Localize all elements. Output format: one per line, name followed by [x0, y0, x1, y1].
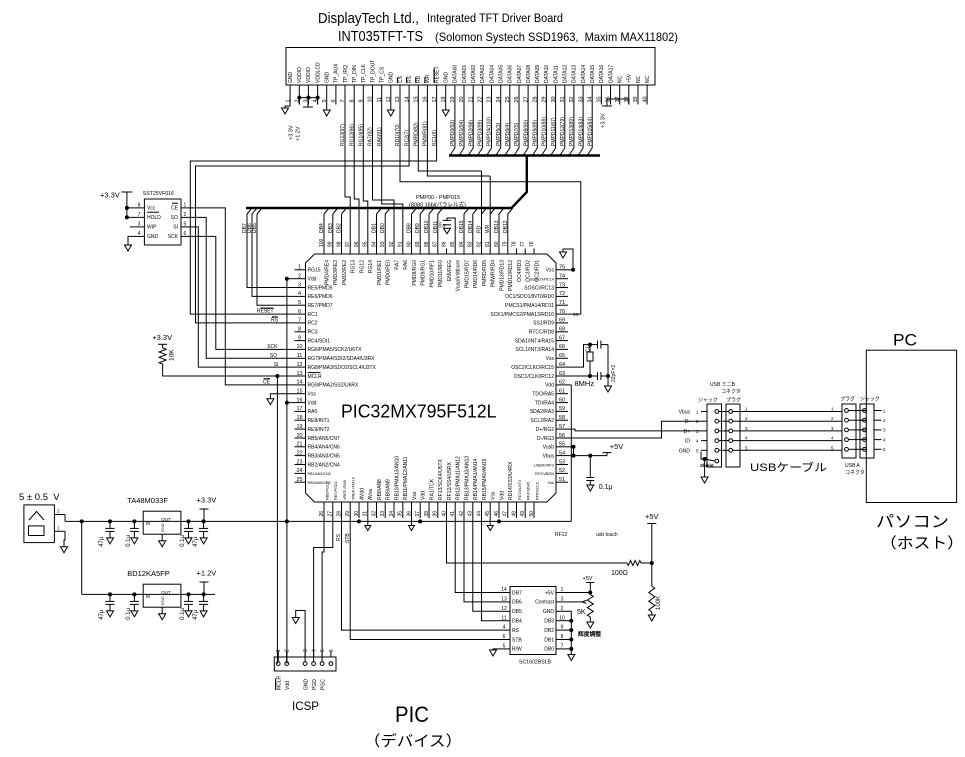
svg-text:RC4/SDI1: RC4/SDI1 [308, 338, 331, 344]
svg-text:1: 1 [561, 587, 564, 593]
svg-text:SCK: SCK [267, 344, 278, 350]
svg-text:CL: CL [586, 345, 592, 352]
svg-text:2: 2 [57, 509, 60, 514]
svg-text:DATA06: DATA06 [508, 65, 514, 83]
svg-text:(8080 16bitパラレル式): (8080 16bitパラレル式) [409, 201, 466, 209]
svg-text:21: 21 [296, 442, 302, 448]
svg-text:2: 2 [285, 649, 291, 652]
svg-text:39: 39 [433, 511, 439, 517]
svg-text:PMD11/RF0: PMD11/RF0 [438, 260, 444, 287]
svg-text:DB5: DB5 [252, 223, 258, 233]
svg-text:D+/RG2: D+/RG2 [536, 427, 554, 433]
svg-text:8: 8 [561, 634, 564, 640]
svg-text:SST25VF016: SST25VF016 [143, 191, 174, 197]
svg-text:（デバイス）: （デバイス） [364, 732, 462, 750]
svg-text:ジャック: ジャック [698, 398, 718, 404]
svg-text:Vbus: Vbus [679, 410, 691, 416]
svg-text:75: 75 [559, 265, 565, 271]
svg-text:10: 10 [296, 344, 302, 350]
svg-text:RC2: RC2 [308, 321, 318, 327]
svg-text:19: 19 [296, 424, 302, 430]
svg-text:34: 34 [389, 511, 395, 517]
svg-text:100K: 100K [656, 596, 662, 610]
svg-text:GND: GND [543, 609, 555, 615]
svg-text:63: 63 [559, 371, 565, 377]
svg-text:52: 52 [559, 468, 565, 474]
svg-text:4: 4 [883, 437, 886, 442]
svg-text:60: 60 [559, 397, 565, 403]
svg-text:DB7: DB7 [512, 590, 522, 596]
svg-text:47μ: 47μ [99, 536, 105, 547]
svg-text:76: 76 [529, 241, 535, 247]
svg-text:7: 7 [561, 644, 564, 650]
svg-text:PMD0/RE0: PMD0/RE0 [386, 260, 392, 285]
svg-text:CE: CE [263, 380, 271, 386]
svg-text:+5V: +5V [610, 442, 624, 451]
svg-text:TP_DIN: TP_DIN [352, 65, 358, 83]
svg-text:AVdd: AVdd [359, 488, 365, 500]
svg-text:辉度調整: 辉度調整 [578, 630, 601, 638]
svg-text:69: 69 [559, 318, 565, 324]
svg-text:RD15/U4TX: RD15/U4TX [518, 479, 522, 500]
svg-text:DATA03: DATA03 [480, 65, 486, 83]
svg-text:プラグ: プラグ [840, 396, 855, 403]
svg-text:0.1μ: 0.1μ [126, 535, 132, 547]
svg-text:RB8/AN8: RB8/AN8 [377, 479, 383, 500]
svg-text:22pF×2: 22pF×2 [611, 365, 617, 382]
svg-text:RE7/PMD7: RE7/PMD7 [308, 303, 333, 309]
svg-text:WR: WR [425, 74, 431, 83]
svg-text:SCK1/PMCS2/PMA13/RD10: SCK1/PMCS2/PMA13/RD10 [490, 312, 554, 318]
svg-text:VDDLCD: VDDLCD [315, 62, 321, 83]
svg-text:62: 62 [559, 380, 565, 386]
svg-text:TP_AUX: TP_AUX [334, 63, 340, 83]
svg-text:PGC: PGC [320, 679, 326, 690]
svg-text:DB3: DB3 [328, 223, 334, 233]
svg-text:PMWR/RD4: PMWR/RD4 [491, 260, 497, 287]
svg-text:RB5/AN5/CN7: RB5/AN5/CN7 [308, 436, 340, 442]
svg-text:R/W: R/W [512, 647, 522, 653]
svg-text:PMD3/RE3: PMD3/RE3 [333, 260, 339, 285]
svg-text:ジャック: ジャック [860, 397, 880, 403]
svg-text:4: 4 [503, 625, 506, 631]
svg-text:1: 1 [184, 203, 187, 209]
svg-text:5: 5 [184, 222, 187, 228]
svg-text:TP_IRQ: TP_IRQ [343, 65, 349, 83]
svg-text:5: 5 [745, 445, 748, 450]
svg-text:TP_CLK: TP_CLK [361, 63, 367, 83]
svg-text:IN: IN [146, 594, 151, 599]
svg-text:RE9/INT2: RE9/INT2 [308, 427, 330, 433]
svg-text:+5V: +5V [627, 73, 633, 83]
svg-text:WR: WR [485, 224, 491, 233]
svg-text:PMD14/RD6: PMD14/RD6 [473, 260, 479, 288]
svg-text:RF13/SCK4/U5TX: RF13/SCK4/U5TX [438, 458, 444, 500]
svg-text:GND: GND [444, 72, 450, 84]
svg-text:RD: RD [477, 225, 483, 233]
svg-text:SO: SO [171, 215, 178, 221]
svg-text:SS1/RD9: SS1/RD9 [533, 321, 554, 327]
svg-text:+3.3V: +3.3V [197, 496, 217, 505]
svg-text:6: 6 [503, 634, 506, 640]
svg-text:Vdd: Vdd [308, 277, 317, 283]
svg-text:SDA1/INT4/RA15: SDA1/INT4/RA15 [515, 338, 554, 344]
svg-text:DATA05: DATA05 [499, 65, 505, 83]
svg-text:SCL2/RA2: SCL2/RA2 [530, 418, 554, 424]
svg-text:72: 72 [559, 291, 565, 297]
svg-text:DB2: DB2 [544, 628, 554, 634]
svg-text:DB4: DB4 [512, 619, 522, 625]
svg-text:OSC2/CLKO/RC15: OSC2/CLKO/RC15 [511, 365, 554, 371]
svg-text:38: 38 [424, 511, 430, 517]
svg-text:64: 64 [559, 362, 565, 368]
svg-text:DATA11: DATA11 [553, 65, 559, 83]
svg-text:USB ミニB: USB ミニB [710, 382, 736, 388]
svg-text:0.1μ: 0.1μ [599, 484, 613, 491]
svg-text:DATA08: DATA08 [526, 65, 532, 83]
svg-text:33: 33 [380, 511, 386, 517]
svg-text:RS: RS [271, 318, 279, 324]
svg-text:5: 5 [696, 448, 699, 453]
svg-text:SDA2/RA3: SDA2/RA3 [530, 409, 554, 415]
svg-text:PIC: PIC [395, 702, 429, 727]
svg-text:DATA17: DATA17 [608, 65, 614, 83]
svg-text:DB0: DB0 [380, 223, 386, 233]
svg-text:HOLD: HOLD [147, 215, 161, 221]
svg-text:DB5: DB5 [512, 609, 522, 615]
svg-text:USBID/RF3: USBID/RF3 [534, 463, 554, 467]
svg-text:4: 4 [312, 649, 318, 652]
svg-text:6: 6 [329, 649, 335, 652]
svg-text:36: 36 [406, 511, 412, 517]
svg-text:3: 3 [303, 649, 309, 652]
svg-text:RB2/AN2/CN4: RB2/AN2/CN4 [308, 462, 340, 468]
svg-text:RG8/PMA3/SDO2/SCL4/U3TX: RG8/PMA3/SDO2/SCL4/U3TX [308, 365, 377, 371]
svg-text:11: 11 [297, 353, 303, 359]
svg-text:47μ: 47μ [193, 609, 199, 620]
svg-text:GND: GND [389, 72, 395, 84]
svg-text:RS: RS [512, 628, 520, 634]
svg-text:53: 53 [559, 459, 565, 465]
svg-text:ICSP: ICSP [292, 701, 319, 713]
svg-text:ENVREG: ENVREG [447, 260, 453, 281]
svg-text:4: 4 [298, 291, 301, 297]
svg-text:RF2/VBON: RF2/VBON [535, 472, 554, 476]
svg-text:OSC1/CLKI/RC12: OSC1/CLKI/RC12 [514, 374, 555, 380]
svg-text:77: 77 [520, 241, 526, 247]
svg-text:DB2: DB2 [337, 223, 343, 233]
svg-text:16: 16 [296, 397, 302, 403]
svg-text:RG12: RG12 [359, 260, 365, 273]
svg-text:コネクタ: コネクタ [845, 469, 865, 476]
svg-text:+3.3V: +3.3V [152, 333, 172, 342]
svg-text:GND: GND [288, 72, 294, 84]
svg-text:3: 3 [745, 426, 748, 431]
svg-text:48: 48 [511, 511, 517, 517]
svg-text:RG7/PMA4/SDI2/SDA4/U3RX: RG7/PMA4/SDI2/SDA4/U3RX [308, 356, 376, 362]
svg-text:22: 22 [296, 450, 302, 456]
svg-text:DATA13: DATA13 [572, 65, 578, 83]
svg-text:DATA01: DATA01 [462, 65, 468, 83]
svg-text:7: 7 [138, 212, 141, 218]
svg-text:RG14: RG14 [368, 260, 374, 273]
svg-text:8: 8 [138, 203, 141, 209]
svg-text:23: 23 [573, 312, 579, 317]
svg-text:5 ± 0.5 V: 5 ± 0.5 V [19, 492, 60, 503]
svg-text:4: 4 [138, 231, 141, 237]
svg-text:3: 3 [561, 597, 564, 603]
svg-text:Vss: Vss [546, 268, 555, 274]
svg-text:3: 3 [831, 426, 834, 431]
svg-text:65: 65 [559, 353, 565, 359]
svg-text:プラグ: プラグ [726, 397, 741, 404]
svg-text:10K: 10K [169, 349, 176, 361]
svg-text:PMD1/RE1: PMD1/RE1 [377, 260, 383, 285]
svg-text:1: 1 [831, 407, 834, 412]
svg-text:AVss: AVss [368, 488, 374, 500]
svg-text:(Solomon Systech SSD1963, Max: (Solomon Systech SSD1963, Maxim MAX11802… [435, 30, 678, 44]
svg-text:61: 61 [559, 389, 565, 395]
svg-text:3: 3 [298, 282, 301, 288]
svg-text:RC1: RC1 [308, 312, 318, 318]
svg-text:USBケーブル: USBケーブル [750, 460, 827, 474]
svg-text:NC: NC [636, 75, 642, 83]
svg-text:SOSCI/RC13: SOSCI/RC13 [524, 285, 554, 291]
svg-text:47μ: 47μ [193, 536, 199, 547]
svg-text:SO: SO [270, 353, 277, 359]
svg-text:usb touch: usb touch [596, 532, 618, 538]
svg-text:6: 6 [298, 309, 301, 315]
svg-text:7: 7 [298, 318, 301, 324]
svg-text:50: 50 [529, 511, 535, 517]
svg-text:RG6/PMA5/SCK2/U6TX: RG6/PMA5/SCK2/U6TX [308, 347, 363, 353]
svg-text:2: 2 [298, 274, 301, 280]
svg-text:RG9/PMA2/SS2/U6RX: RG9/PMA2/SS2/U6RX [308, 383, 360, 389]
svg-text:+3.3V: +3.3V [100, 191, 120, 200]
svg-text:VREF-/RA9: VREF-/RA9 [343, 480, 347, 500]
svg-text:DB15: DB15 [459, 220, 465, 233]
svg-text:PMP00 - PMP015: PMP00 - PMP015 [416, 195, 460, 201]
svg-text:DisplayTech Ltd.,: DisplayTech Ltd., [318, 11, 419, 27]
svg-text:D-/RG3: D-/RG3 [537, 436, 554, 442]
svg-text:+5V: +5V [583, 576, 593, 582]
svg-text:（ホスト）: （ホスト） [880, 535, 964, 552]
svg-text:RG13: RG13 [351, 260, 357, 273]
svg-text:54: 54 [559, 450, 565, 456]
svg-text:パソコン: パソコン [876, 514, 949, 531]
svg-text:Vcap/Vddcore: Vcap/Vddcore [456, 260, 462, 292]
svg-text:46: 46 [494, 511, 500, 517]
svg-text:0.1μ: 0.1μ [180, 535, 186, 547]
svg-text:58: 58 [559, 415, 565, 421]
svg-text:DATA00: DATA00 [453, 65, 459, 83]
svg-text:WIP: WIP [147, 225, 157, 231]
svg-text:INT035TFT-TS: INT035TFT-TS [338, 29, 423, 45]
svg-text:18: 18 [296, 415, 302, 421]
svg-text:RE5/PMD5: RE5/PMD5 [308, 285, 333, 291]
svg-text:OC4/RD3: OC4/RD3 [517, 260, 523, 282]
svg-text:RESET: RESET [434, 66, 440, 83]
svg-text:DATA15: DATA15 [590, 65, 596, 83]
svg-text:DB9: DB9 [415, 223, 421, 233]
svg-text:4: 4 [745, 436, 748, 441]
svg-text:71: 71 [559, 300, 565, 306]
svg-text:+5V: +5V [645, 512, 659, 521]
svg-text:RE8/INT1: RE8/INT1 [308, 418, 330, 424]
svg-text:5: 5 [320, 649, 326, 652]
svg-text:25: 25 [296, 477, 302, 483]
svg-text:RF12: RF12 [555, 532, 567, 538]
svg-text:GND: GND [160, 596, 165, 605]
svg-text:47: 47 [503, 511, 509, 517]
svg-text:DB0: DB0 [544, 647, 554, 653]
svg-text:RB1/AN1/CN3: RB1/AN1/CN3 [308, 472, 331, 476]
svg-text:DB6: DB6 [512, 600, 522, 606]
svg-text:5: 5 [503, 644, 506, 650]
svg-text:42: 42 [459, 511, 465, 517]
svg-text:1μ: 1μ [442, 224, 446, 228]
svg-text:31: 31 [363, 511, 369, 517]
svg-text:0.1μ: 0.1μ [126, 608, 132, 620]
svg-text:RB10/PMA13/AN10: RB10/PMA13/AN10 [394, 456, 400, 500]
svg-text:RB9/AN9: RB9/AN9 [386, 479, 392, 500]
svg-text:2: 2 [561, 606, 564, 612]
svg-text:DATA10: DATA10 [544, 65, 550, 83]
svg-text:DB1: DB1 [544, 637, 554, 643]
svg-text:RD14/SS3/U4RX: RD14/SS3/U4RX [508, 461, 514, 500]
svg-text:37: 37 [415, 511, 421, 517]
svg-text:59: 59 [559, 406, 565, 412]
svg-text:1: 1 [298, 265, 301, 271]
svg-text:RB15/PMA0/AN15: RB15/PMA0/AN15 [482, 458, 488, 500]
svg-text:Vss: Vss [308, 392, 317, 398]
svg-text:Vdd: Vdd [499, 491, 505, 500]
svg-text:32: 32 [371, 511, 377, 517]
svg-text:DB14: DB14 [468, 220, 474, 233]
svg-text:SI: SI [274, 362, 279, 368]
svg-text:VDDIO: VDDIO [306, 67, 312, 83]
svg-text:44: 44 [476, 511, 482, 517]
svg-text:70: 70 [559, 309, 565, 315]
svg-text:NC: NC [645, 75, 651, 83]
svg-text:RTCC/RD8: RTCC/RD8 [529, 330, 554, 336]
svg-text:68: 68 [559, 327, 565, 333]
svg-text:78: 78 [511, 241, 517, 247]
svg-text:47μ: 47μ [99, 609, 105, 620]
svg-text:+1.2V: +1.2V [197, 569, 217, 578]
svg-text:56: 56 [559, 433, 565, 439]
svg-text:2: 2 [831, 416, 834, 421]
svg-text:14: 14 [296, 380, 302, 386]
svg-text:12: 12 [501, 606, 507, 612]
svg-text:PMCS1/PMA14/RD11: PMCS1/PMA14/RD11 [505, 303, 554, 309]
svg-text:DATA07: DATA07 [517, 65, 523, 83]
svg-text:Vdd: Vdd [308, 400, 317, 406]
svg-text:1: 1 [745, 407, 748, 412]
svg-text:TDI/RA4: TDI/RA4 [535, 400, 554, 406]
svg-text:1: 1 [883, 408, 886, 413]
svg-text:RA6: RA6 [403, 260, 409, 270]
svg-text:DATA16: DATA16 [599, 65, 605, 83]
svg-text:SCL1/INT3/RA14: SCL1/INT3/RA14 [515, 347, 554, 353]
svg-text:86: 86 [441, 241, 447, 247]
svg-text:73: 73 [559, 282, 565, 288]
svg-text:RG15: RG15 [308, 268, 321, 274]
svg-text:PMD2/RE2: PMD2/RE2 [342, 260, 348, 285]
svg-text:57: 57 [559, 424, 565, 430]
svg-text:TA48M033F: TA48M033F [127, 496, 168, 505]
svg-text:OC2/RD1: OC2/RD1 [534, 260, 540, 282]
svg-text:PMD15/RD7: PMD15/RD7 [464, 260, 470, 288]
svg-text:Integrated TFT Driver Board: Integrated TFT Driver Board [427, 13, 563, 25]
svg-text:コネクタ: コネクタ [721, 388, 741, 395]
svg-text:SI: SI [173, 225, 178, 231]
svg-text:4: 4 [831, 436, 834, 441]
svg-text:RF4/SDA5: RF4/SDA5 [527, 482, 531, 500]
svg-text:30: 30 [354, 511, 360, 517]
svg-text:5: 5 [298, 300, 301, 306]
svg-text:35: 35 [398, 511, 404, 517]
svg-text:24: 24 [296, 468, 302, 474]
svg-text:5: 5 [831, 445, 834, 450]
svg-text:1: 1 [696, 410, 699, 415]
svg-text:SC1602BSLB: SC1602BSLB [519, 660, 552, 666]
svg-text:MCLR: MCLR [276, 675, 282, 690]
svg-text:RB12/PMA11/AN12: RB12/PMA11/AN12 [456, 456, 462, 500]
svg-text:RB4/AN4/CN6: RB4/AN4/CN6 [308, 445, 340, 451]
svg-text:RF12/SS4/U5RX: RF12/SS4/U5RX [447, 462, 453, 500]
svg-text:Vss: Vss [412, 491, 418, 500]
svg-text:5K: 5K [577, 609, 586, 616]
svg-text:OC1/SDO1/INT0/RD0: OC1/SDO1/INT0/RD0 [505, 294, 554, 300]
svg-text:DB4: DB4 [319, 223, 325, 233]
svg-text:12: 12 [296, 362, 302, 368]
svg-text:PMRD/RD5: PMRD/RD5 [482, 260, 488, 286]
svg-text:MCLR: MCLR [308, 374, 323, 380]
svg-text:RA1/TCK: RA1/TCK [429, 478, 435, 500]
svg-text:DB3: DB3 [544, 619, 554, 625]
svg-text:3: 3 [883, 428, 886, 433]
svg-text:13: 13 [296, 371, 302, 377]
svg-text:DATA14: DATA14 [581, 65, 587, 83]
svg-text:VREF+/RA10: VREF+/RA10 [352, 477, 356, 500]
svg-text:ID: ID [685, 439, 690, 445]
svg-text:DB12: DB12 [503, 220, 509, 233]
svg-text:RC3: RC3 [308, 330, 318, 336]
svg-text:RS: RS [407, 75, 413, 83]
svg-text:DATA09: DATA09 [535, 65, 541, 83]
svg-text:8: 8 [298, 327, 301, 333]
svg-text:Vusb: Vusb [543, 445, 554, 451]
svg-text:74: 74 [559, 274, 565, 280]
svg-text:CS: CS [398, 75, 404, 83]
svg-text:DB13: DB13 [494, 220, 500, 233]
svg-text:TP_DOUT: TP_DOUT [370, 60, 376, 83]
svg-text:D+: D+ [683, 429, 690, 435]
svg-text:+3.3V: +3.3V [601, 113, 607, 128]
svg-text:Vss: Vss [491, 491, 497, 500]
svg-text:29: 29 [345, 511, 351, 517]
svg-text:55: 55 [559, 442, 565, 448]
svg-text:GND: GND [325, 72, 331, 84]
svg-text:Vbus: Vbus [543, 453, 555, 459]
svg-text:3: 3 [138, 222, 141, 228]
svg-text:Vcc: Vcc [147, 206, 156, 212]
svg-text:9: 9 [561, 625, 564, 631]
svg-text:Vdd: Vdd [545, 383, 554, 389]
svg-text:1: 1 [276, 649, 282, 652]
svg-text:D-: D- [685, 419, 691, 425]
